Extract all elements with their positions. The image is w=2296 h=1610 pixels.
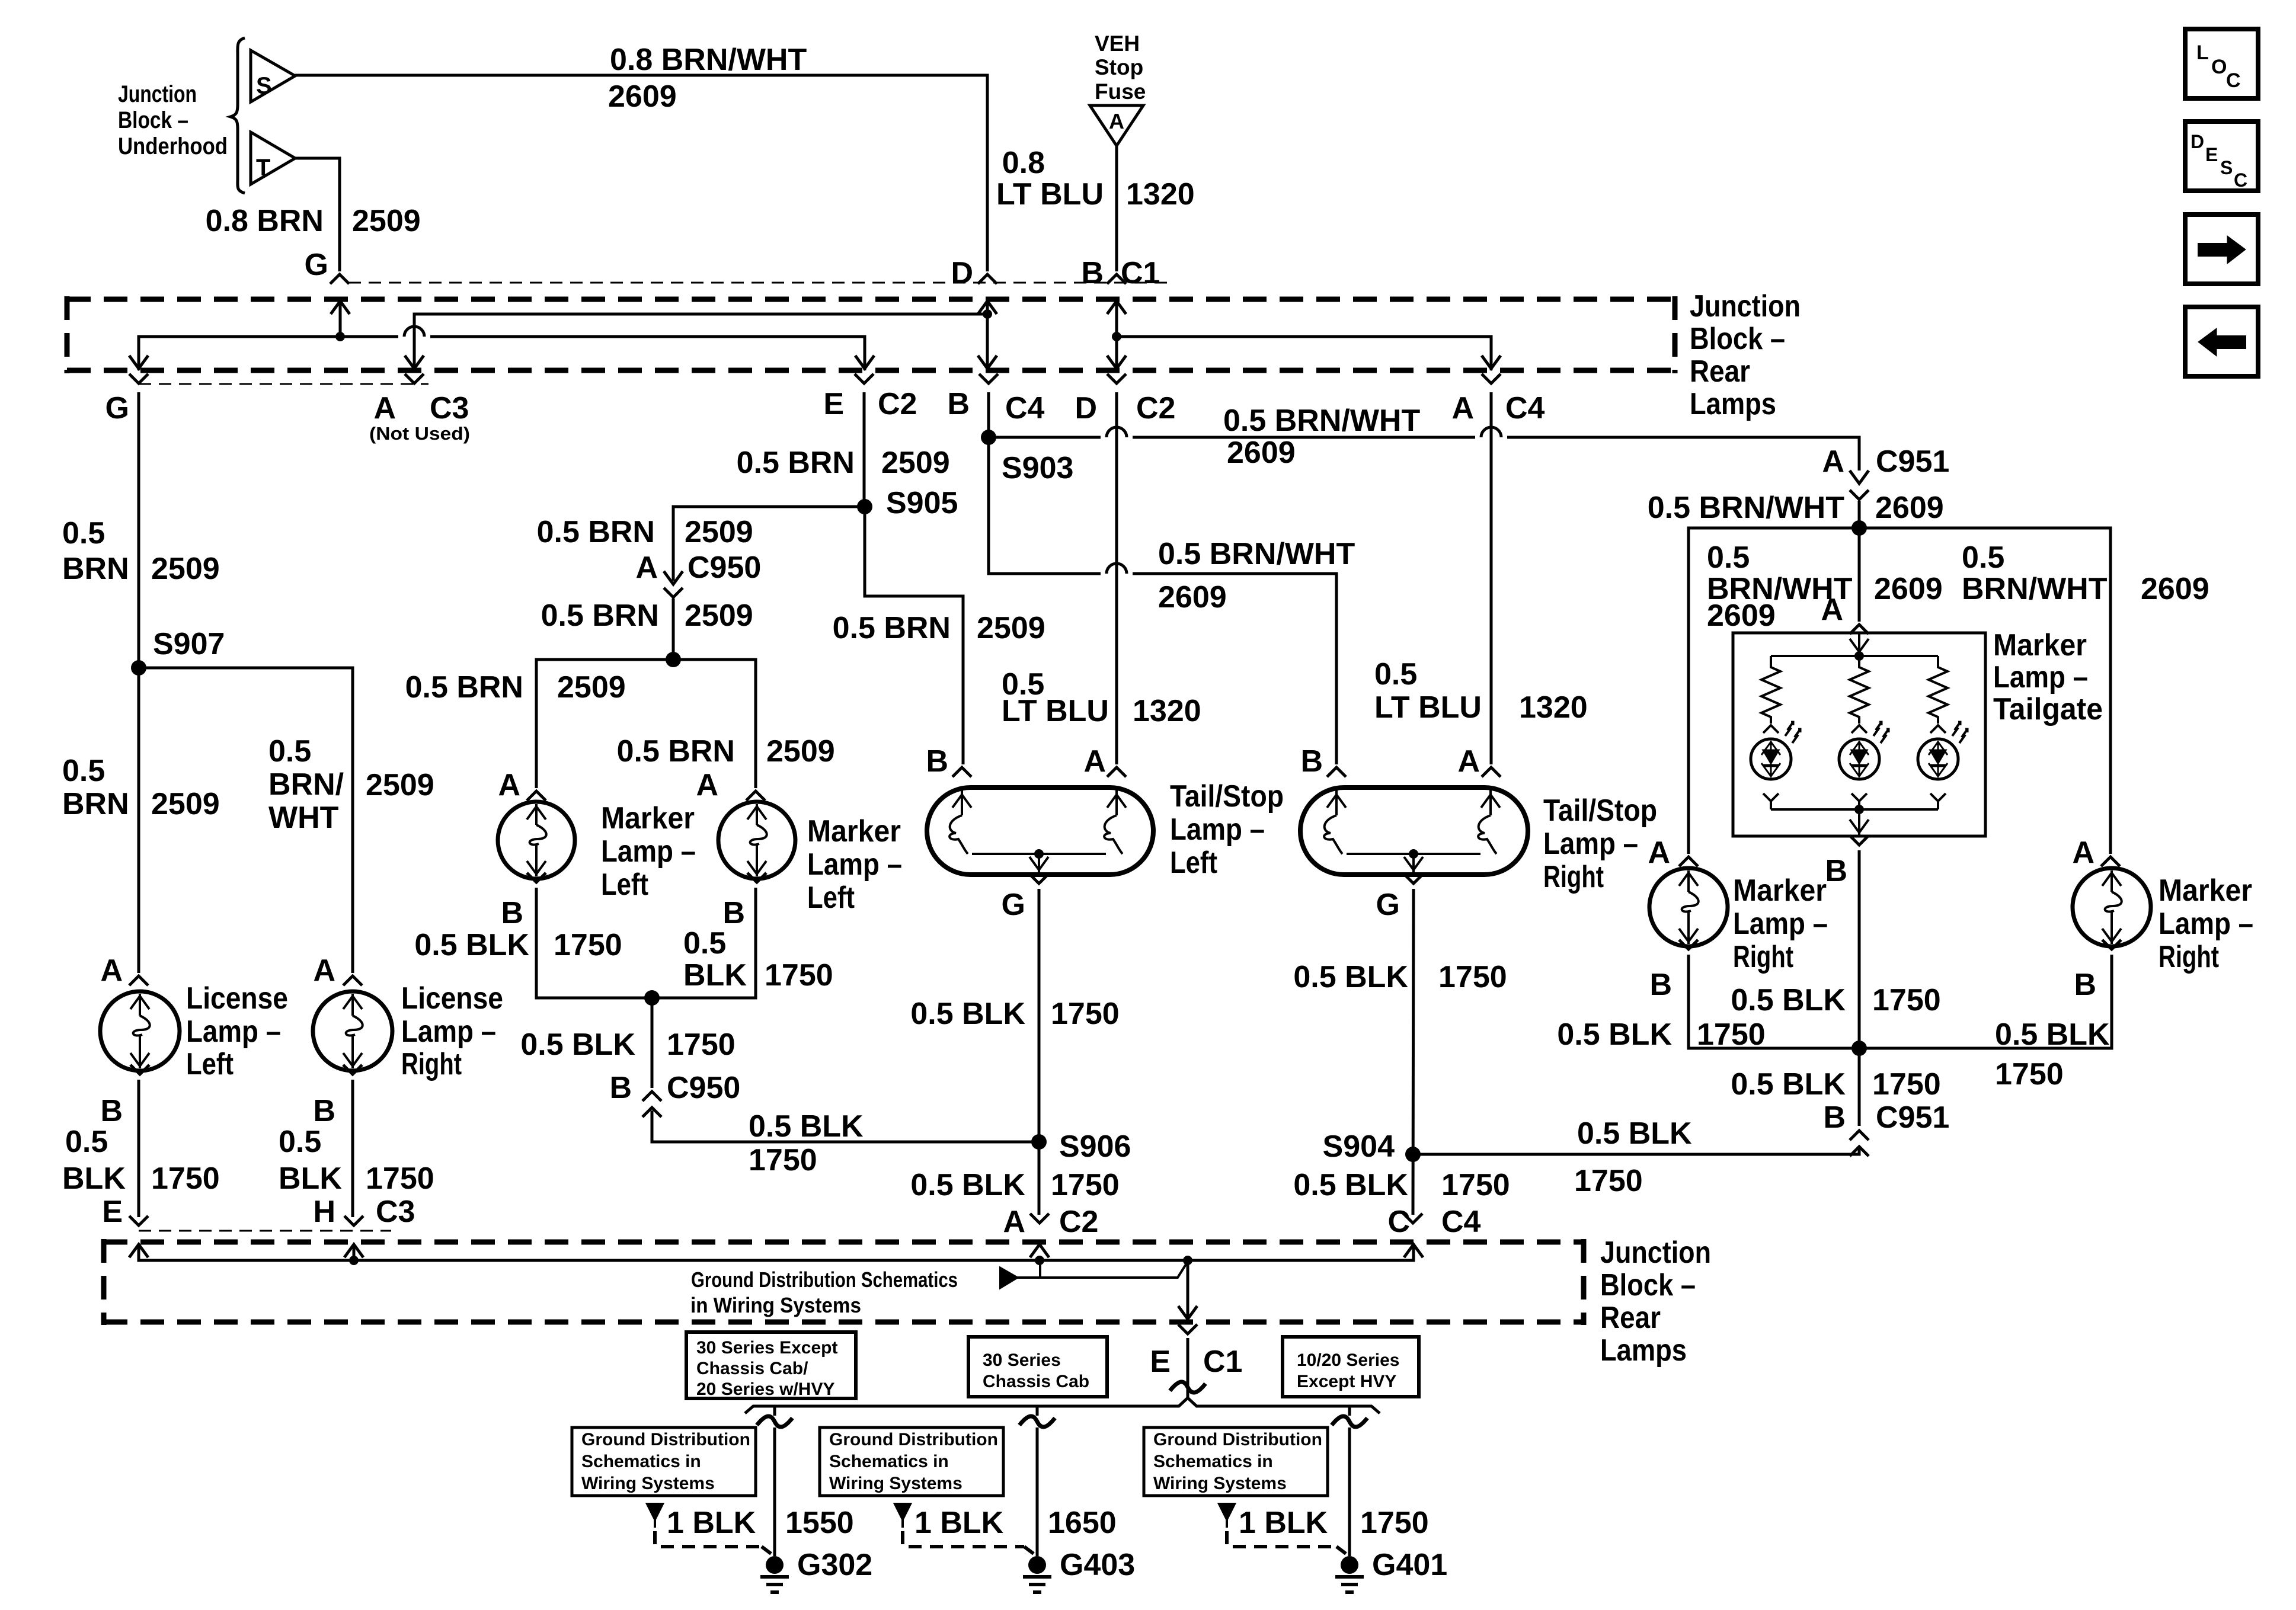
svg-text:License: License [186,981,288,1016]
svg-text:Ground Distribution Schematics: Ground Distribution Schematics [691,1267,958,1292]
label 0.5 BLK 1750 (marker 1) [414,928,622,962]
svg-text:0.5 BRN/WHT: 0.5 BRN/WHT [1223,404,1420,438]
svg-text:Lamp –: Lamp – [186,1014,281,1049]
license lamp right bulb [313,991,392,1071]
label 0.8 [1002,146,1045,180]
svg-text:Underhood: Underhood [118,133,228,159]
node E C1 dot (bottom JB) [1178,1256,1197,1320]
connector C951 A [1822,444,1949,500]
fuse feed triangle A [1090,105,1143,146]
pin B label (C4) [947,387,970,421]
svg-text:0.5 BLK: 0.5 BLK [1557,1017,1672,1052]
svg-text:B: B [2074,968,2096,1002]
wire C950 A to marker bus [672,598,675,660]
svg-text:B: B [1649,968,1672,1002]
connector terminal G (JB bottom) [129,374,148,383]
wire 0.5 BRN/WHT 2609 S903 to C951 A [989,427,1859,469]
wire 0.5 BLK 1750 license right to H [351,1080,354,1217]
svg-text:B: B [947,387,970,421]
svg-text:1 BLK: 1 BLK [914,1506,1004,1540]
label 0.5 BLK (license right) [279,1125,342,1196]
wire C950 B to S906 [652,1110,1037,1142]
node marker ground dot [644,990,660,1006]
label 1750 (S904 run) [1574,1164,1643,1198]
svg-text:0.5 BRN/WHT: 0.5 BRN/WHT [1648,491,1844,525]
svg-text:2509: 2509 [977,611,1045,645]
connector A C2 (bottom JB) [1003,1205,1098,1239]
svg-text:C3: C3 [430,391,469,425]
tailgate bottom bus [1771,805,1938,814]
label 0.5 BLK 1750 (marker right 1) [1557,1017,1765,1052]
svg-text:0.5 BRN: 0.5 BRN [541,598,659,633]
svg-text:E: E [102,1195,123,1229]
tailgate top bus [1771,655,1938,657]
svg-text:1320: 1320 [1519,690,1588,725]
svg-text:0.5 BLK: 0.5 BLK [520,1028,635,1062]
label 0.5 BLK 1750 (C951 drop) [1731,1067,1940,1102]
svg-text:Wiring Systems: Wiring Systems [581,1474,715,1493]
svg-text:B: B [722,896,745,930]
svg-text:2609: 2609 [1227,436,1296,470]
svg-text:BRN/: BRN/ [268,767,344,802]
svg-text:Block –: Block – [118,107,188,133]
svg-text:0.5: 0.5 [1962,540,2004,575]
arrow into G out [129,356,148,369]
svg-text:A: A [498,768,520,802]
label 0.5 BRN 2509 (to C950) [537,515,753,549]
svg-text:Chassis Cab: Chassis Cab [983,1372,1089,1391]
internal wire G to G/E (top JB) [139,327,865,370]
svg-text:0.5 BRN: 0.5 BRN [537,515,655,549]
svg-text:Lamp –: Lamp – [601,834,696,869]
svg-text:A: A [696,768,718,802]
label 2609 + pin A (tailgate) [1821,572,1942,627]
svg-text:G: G [1002,888,1025,922]
svg-text:2609: 2609 [608,79,677,114]
svg-text:Block –: Block – [1690,322,1785,356]
wire 0.5 LT BLU 1320 A C4 to tail lamp right A [1490,392,1493,764]
svg-text:B: B [100,1094,123,1128]
svg-text:Schematics in: Schematics in [829,1452,949,1471]
svg-text:S905: S905 [886,486,958,520]
svg-text:1 BLK: 1 BLK [667,1506,756,1540]
svg-text:Ground Distribution: Ground Distribution [829,1430,998,1449]
prev-page arrow box [2185,307,2258,376]
svg-text:G403: G403 [1060,1548,1135,1582]
svg-text:T: T [256,155,270,181]
connector terminal A C3 [405,374,424,383]
marker lamp right 1 pin B [1649,940,1698,1002]
svg-text:0.5: 0.5 [1374,657,1417,692]
label 2509 (E drop) [881,446,950,480]
svg-text:G: G [305,248,328,282]
svg-text:A: A [1003,1205,1025,1239]
wire 0.5 BLK 1750 tail left G to S906 [1038,889,1041,1215]
svg-text:A: A [1083,744,1106,779]
Junction Block - Underhood label [118,81,228,159]
svg-text:1750: 1750 [749,1143,817,1177]
wire 0.5 BRN 2509 from G to S907 [137,392,140,668]
pin C2 label (D) [1136,391,1175,425]
splice S906 [1031,1129,1131,1164]
svg-text:2509: 2509 [557,670,626,705]
svg-text:E: E [2205,144,2218,165]
marker lamp right 2 pin B [2074,940,2121,1002]
node H dot (bottom JB) [344,1244,363,1265]
svg-text:Marker: Marker [2159,873,2252,908]
svg-text:G: G [105,391,129,425]
svg-text:0.5 BLK: 0.5 BLK [910,997,1025,1031]
label 0.5 BLK 1750 (below S906) [910,1168,1119,1202]
svg-text:1650: 1650 [1048,1506,1117,1540]
connector terminal E C2 [855,374,874,383]
option box 10/20 series [1283,1337,1419,1397]
svg-text:S903: S903 [1002,451,1073,485]
svg-text:0.5: 0.5 [62,516,105,550]
tail/stop lamp right label [1543,793,1657,894]
svg-text:Left: Left [807,881,855,915]
svg-text:Lamp –: Lamp – [1543,827,1638,861]
svg-text:1750: 1750 [1438,960,1507,994]
pin C2 label [878,387,917,421]
svg-text:Marker: Marker [807,814,901,849]
svg-text:Tail/Stop: Tail/Stop [1170,779,1284,814]
license lamp left bulb [100,991,180,1071]
label 0.5 BLK 1750 (C950 drop) [520,1028,735,1062]
connector terminal B C1 [1107,274,1126,284]
connector terminal A C4 [1482,374,1501,383]
svg-text:A: A [100,953,123,988]
svg-text:Ground Distribution: Ground Distribution [1153,1430,1322,1449]
pin D label (C2) [1075,391,1097,425]
internal wire B to A C4 (top JB) [1117,337,1501,370]
tail lamp right pin G [1376,874,1423,922]
svg-text:1750: 1750 [366,1161,434,1196]
connector C C4 (bottom JB) [1387,1205,1480,1239]
wire 0.5 BRN/WHT from B C4 to S903 [987,392,990,437]
svg-text:Marker: Marker [601,801,695,836]
svg-text:2509: 2509 [685,598,753,633]
svg-text:C2: C2 [1059,1205,1098,1239]
tailgate pin B [1825,836,1869,888]
connector triangle T (tail feed) [251,132,295,184]
marker lamp right 1 label [1733,873,1828,974]
connector line C1/C2 (thin dashed) [348,282,1168,284]
svg-text:2509: 2509 [366,768,434,802]
svg-text:B: B [926,744,948,779]
svg-text:C4: C4 [1005,391,1045,425]
svg-text:2609: 2609 [1158,580,1227,614]
connector triangle S (stop feed) [251,50,295,102]
wire marker ground to C950 B [651,998,654,1088]
label 0.5 BRN (G drop) [62,516,129,586]
label 1750 (license right) [366,1161,434,1196]
label 1750 (license left) [151,1161,220,1196]
license lamp left pin A [100,953,148,988]
svg-text:1750: 1750 [1051,997,1120,1031]
svg-text:C1: C1 [1121,256,1160,290]
svg-text:2509: 2509 [151,552,220,586]
marker lamp left 2 bulb [718,802,795,879]
svg-text:Lamp –: Lamp – [401,1014,496,1049]
svg-text:Tailgate: Tailgate [1993,692,2103,726]
label 1320 (tail left) [1133,694,1201,728]
svg-text:2509: 2509 [766,734,835,769]
next-page arrow box [2185,215,2258,284]
svg-text:Junction: Junction [1600,1235,1711,1270]
svg-text:A: A [1822,444,1844,479]
svg-text:2509: 2509 [685,515,753,549]
svg-text:Fuse: Fuse [1095,79,1146,104]
svg-text:Chassis Cab/: Chassis Cab/ [696,1359,808,1378]
marker lamp right 2 label [2159,873,2253,974]
reference arrow triangle [1000,1260,1188,1288]
license lamp right pin A [313,953,362,988]
svg-text:A: A [2072,836,2094,870]
license lamp left pin B [100,1065,149,1128]
label 2509 (license left) [151,787,220,821]
DESC icon box [2185,121,2258,191]
wire 0.5 BLK 1750 tail right G to S904 [1413,889,1414,1215]
wire E C1 to option bus [1187,1338,1189,1398]
option box 30 series chassis cab [968,1337,1107,1397]
svg-text:Ground Distribution: Ground Distribution [581,1430,750,1449]
wire tailgate feed [1858,528,1861,622]
svg-text:D: D [1075,391,1097,425]
svg-text:(Not Used): (Not Used) [369,423,470,444]
svg-text:O: O [2211,56,2227,78]
wire 0.5 LT BLU 1320 D C2 to tail lamp left A [1115,392,1118,764]
svg-text:G401: G401 [1372,1548,1447,1582]
svg-text:Schematics in: Schematics in [581,1452,701,1471]
marker lamp left 1 pin B [501,873,546,930]
svg-text:B: B [1823,1100,1846,1135]
label 0.5 BRN/WHT 2609 (marker right 1) [1707,540,1853,633]
internal ground wire (bottom JB) [139,1244,1414,1260]
svg-text:0.5 BLK: 0.5 BLK [1731,983,1846,1017]
wire 0.8 BRN/WHT 2609 from S to junction block D [295,75,987,271]
label 0.5 BLK (license left) [62,1125,126,1196]
svg-text:0.5: 0.5 [683,926,726,961]
svg-text:A: A [1451,391,1474,425]
svg-text:0.5 BRN: 0.5 BRN [833,611,951,645]
svg-text:2509: 2509 [881,446,950,480]
svg-text:Wiring Systems: Wiring Systems [829,1474,962,1493]
pin A label (C3) [373,391,396,425]
tailgate LED D2 [1839,722,1889,809]
svg-text:0.5: 0.5 [1707,540,1750,575]
svg-text:Rear: Rear [1600,1301,1661,1335]
node marker bus dot [666,652,681,667]
tail lamp left pin B [926,744,971,779]
svg-text:G302: G302 [797,1548,872,1582]
option bus [745,1398,1380,1413]
label 0.8 BRN [206,204,324,238]
wire S907 to license lamp right [139,668,353,973]
svg-text:Rear: Rear [1690,354,1750,389]
node D dot [978,299,997,370]
svg-text:D: D [2191,131,2204,152]
svg-text:C951: C951 [1876,1100,1949,1135]
svg-text:Lamp –: Lamp – [1993,660,2088,694]
node G feed dot [331,301,350,341]
svg-text:C4: C4 [1505,391,1545,425]
marker lamp tailgate box [1733,633,1985,836]
svg-text:0.8: 0.8 [1002,146,1045,180]
svg-text:A: A [313,953,335,988]
svg-text:Except HVY: Except HVY [1297,1372,1396,1391]
svg-text:0.5 BLK: 0.5 BLK [414,928,529,962]
label 0.5 BRN 2509 (marker left 2) [617,734,835,769]
label 2609 [608,79,677,114]
pin C1 label [1121,256,1160,290]
connector line C3 bottom (thin dashed) [139,1230,391,1232]
svg-text:2509: 2509 [151,787,220,821]
svg-text:2609: 2609 [1875,491,1944,525]
svg-text:E: E [823,387,844,421]
svg-text:S906: S906 [1059,1129,1131,1164]
marker lamp left 2 pin B [722,873,766,930]
label 0.5 BLK 1750 (tailgate B) [1731,983,1940,1017]
svg-text:Junction: Junction [118,81,197,107]
svg-text:0.5 BRN/WHT: 0.5 BRN/WHT [1158,537,1355,571]
svg-text:1750: 1750 [1574,1164,1643,1198]
ground G403 branch [820,1406,1135,1592]
svg-text:B: B [1825,854,1847,888]
arrow to E C2 [855,356,874,369]
svg-text:Lamp –: Lamp – [807,847,902,882]
svg-text:E: E [1150,1345,1171,1379]
label 0.5 BRN/WHT 2609 (marker right 2) [1962,540,2209,606]
label 1750 (C950 to S906) [749,1143,817,1177]
svg-text:C: C [2234,169,2247,191]
brace for Junction Block - Underhood [231,38,245,193]
svg-text:LT BLU: LT BLU [1374,690,1482,725]
svg-text:1750: 1750 [1360,1506,1429,1540]
svg-text:0.5 BLK: 0.5 BLK [1995,1017,2110,1052]
svg-text:A: A [1821,593,1843,627]
license lamp right pin B [313,1065,362,1128]
tailgate LED D1 [1751,722,1801,809]
label 0.5 LT BLU (tail right) [1374,657,1482,725]
wire S907 to license lamp left [137,668,140,973]
license lamp right label [401,981,503,1081]
label 0.5 BLK 1750 (tail left G) [910,997,1119,1031]
label 0.5 BRN/WHT 2609 (below C951) [1648,491,1944,525]
svg-text:C951: C951 [1876,444,1949,479]
svg-text:1550: 1550 [785,1506,854,1540]
pin C3 label [430,391,469,425]
marker lamp left 1 label [601,801,696,902]
tailgate connector terminal A [1850,625,1869,634]
svg-text:1320: 1320 [1133,694,1201,728]
connector terminal B C4 [979,374,998,383]
svg-text:S: S [256,73,272,99]
wire S905 to C950 A [673,507,865,569]
current path squiggle (E C1) [1170,1382,1205,1393]
svg-text:1750: 1750 [765,958,833,993]
tailgate exit arrow [1850,809,1869,836]
pin A label (C4) [1451,391,1474,425]
junction block rear lamps (bottom) dashed box [104,1239,1584,1325]
svg-text:0.5 BLK: 0.5 BLK [749,1109,864,1144]
svg-text:2509: 2509 [352,204,421,238]
wire 0.5 BLK 1750 license left to E [137,1080,140,1217]
node C951 splice dot [1851,520,1867,536]
label 0.5 BLK (C950 to S906) [749,1109,864,1144]
svg-text:0.8 BRN: 0.8 BRN [206,204,324,238]
license lamp left label [186,981,288,1081]
svg-text:A: A [1457,744,1480,779]
svg-text:C950: C950 [687,550,761,585]
junction block rear lamps (top) dashed box [67,296,1675,373]
marker lamp right 2 bulb [2073,868,2151,946]
svg-text:B: B [609,1071,632,1105]
svg-text:A: A [1109,109,1124,133]
arrow to C C4 (bottom JB) [1404,1244,1423,1257]
svg-text:C950: C950 [667,1071,740,1105]
label 0.5 BRN 2509 (tail left B) [833,611,1045,645]
marker lamps right ground bus [1689,955,2112,1048]
svg-text:VEH: VEH [1095,31,1140,56]
internal wire D to A C3 (top JB) [405,314,987,370]
wire 0.8 LT BLU 1320 from fuse to junction block B [1115,146,1118,271]
svg-text:BRN/WHT: BRN/WHT [1962,572,2108,606]
label 0.5 BRN (license left) [62,754,129,821]
label 2509 (G drop) [151,552,220,586]
svg-text:0.5 BRN: 0.5 BRN [405,670,523,705]
svg-text:C4: C4 [1441,1205,1481,1239]
svg-text:1750: 1750 [1051,1168,1120,1202]
svg-text:0.8 BRN/WHT: 0.8 BRN/WHT [610,43,807,77]
svg-text:Lamps: Lamps [1690,387,1776,421]
svg-text:30 Series Except: 30 Series Except [696,1338,838,1358]
connector C950 B [609,1071,740,1117]
connector line C3 (thin dashed) [139,383,428,385]
svg-text:Marker: Marker [1733,873,1827,908]
svg-text:1750: 1750 [1872,983,1941,1017]
wire 0.5 BRN/WHT 2609 S903 to tail lamp right B [989,437,1336,764]
svg-text:Left: Left [1170,846,1217,880]
svg-text:L: L [2196,41,2209,64]
svg-text:C3: C3 [376,1195,415,1229]
svg-text:C2: C2 [1136,391,1175,425]
label 0.5 BLK 1750 (marker right 2) [1995,1017,2110,1092]
label 0.5 BLK 1750 (below S904) [1293,1168,1510,1202]
right cluster feed bus [1689,528,2110,854]
tail lamp right pin A [1457,744,1501,779]
connector terminal D C2 [1107,374,1126,383]
pin E label [823,387,844,421]
wire 0.8 BRN 2509 from T to junction block G [295,158,340,271]
svg-text:0.5: 0.5 [65,1125,108,1159]
svg-text:0.5 BRN: 0.5 BRN [617,734,735,769]
svg-text:Right: Right [2159,940,2219,974]
license left connector E [102,1195,148,1229]
svg-text:2609: 2609 [2141,572,2209,606]
pin B label [1081,256,1104,290]
marker lamp tailgate label [1993,628,2103,726]
svg-text:BRN: BRN [62,787,129,821]
svg-text:Left: Left [186,1047,234,1081]
svg-text:20 Series w/HVY: 20 Series w/HVY [696,1379,834,1399]
pin G label (JB bottom) [105,391,129,425]
label 0.5 BLK 1750 (tail right G) [1293,960,1507,994]
connector C951 B [1823,1100,1949,1156]
ground G302 branch [572,1406,872,1592]
svg-text:LT BLU: LT BLU [996,177,1104,212]
wire below C951 A [1858,501,1861,528]
